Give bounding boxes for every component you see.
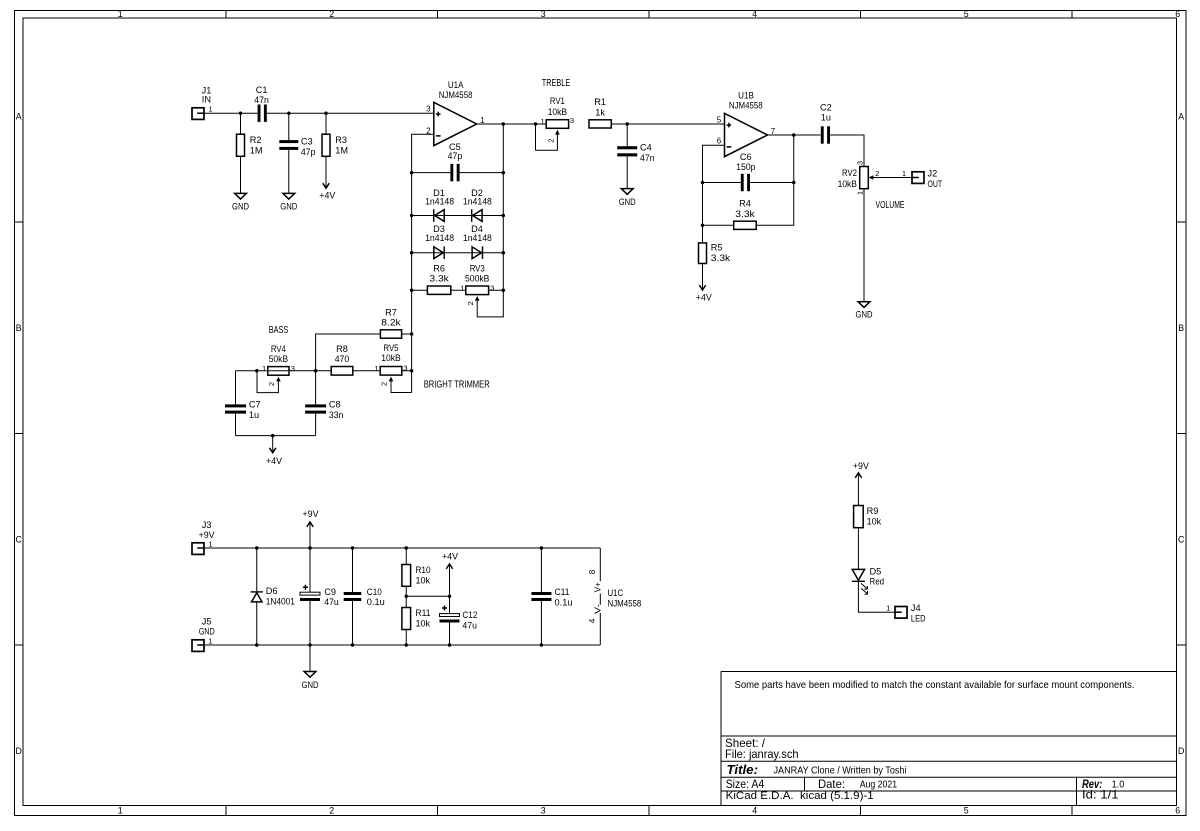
svg-text:2: 2	[546, 138, 555, 142]
resistor R8	[331, 344, 353, 375]
svg-text:C8: C8	[329, 400, 341, 410]
svg-text:4: 4	[752, 806, 757, 816]
svg-text:50kB: 50kB	[269, 354, 288, 364]
potentiometer RV4	[257, 344, 295, 393]
svg-text:C1: C1	[256, 85, 268, 95]
svg-text:R8: R8	[336, 344, 348, 354]
svg-text:1M: 1M	[335, 145, 348, 155]
junction R10 R11	[405, 595, 409, 599]
wire U1A pin2 feedback rail left	[412, 134, 434, 392]
svg-text:R2: R2	[250, 135, 262, 145]
svg-text:RV4: RV4	[271, 344, 286, 354]
svg-text:D: D	[1178, 746, 1184, 756]
svg-text:R10: R10	[416, 565, 431, 575]
svg-text:D: D	[16, 746, 22, 756]
svg-text:1: 1	[886, 604, 890, 613]
svg-text:1n4148: 1n4148	[463, 197, 492, 207]
svg-text:A: A	[1178, 111, 1184, 121]
resistor R6	[427, 263, 450, 294]
svg-text:C9: C9	[324, 587, 336, 597]
svg-text:6: 6	[717, 137, 722, 146]
svg-text:Size: A4: Size: A4	[726, 777, 765, 791]
svg-text:1: 1	[262, 364, 266, 373]
wire U1B right rail to R4	[756, 135, 793, 225]
power +4V above C12	[442, 552, 459, 597]
svg-text:+4V: +4V	[319, 190, 336, 200]
svg-text:RV3: RV3	[470, 263, 485, 273]
svg-text:B: B	[1178, 323, 1184, 333]
junction U1A output	[502, 122, 506, 126]
ground below C4	[619, 189, 636, 207]
svg-text:3.3k: 3.3k	[735, 209, 755, 219]
svg-text:GND: GND	[856, 310, 873, 320]
wire C5 row	[412, 172, 504, 174]
potentiometer RV1	[536, 96, 575, 150]
resistor R3	[322, 113, 348, 188]
svg-text:47n: 47n	[640, 153, 655, 163]
svg-text:3: 3	[490, 283, 494, 292]
LED D5	[852, 566, 884, 594]
wire U1A output row	[477, 123, 547, 125]
svg-text:+4V: +4V	[442, 552, 459, 562]
power +4V below R3	[319, 183, 336, 200]
svg-text:10k: 10k	[416, 618, 431, 628]
svg-text:IN: IN	[202, 95, 211, 105]
resistor R9	[854, 506, 882, 528]
svg-text:1: 1	[208, 105, 212, 114]
capacitor C8	[305, 371, 343, 436]
svg-text:1: 1	[540, 117, 544, 126]
wire C1 to U1A pin3	[267, 112, 434, 114]
svg-text:GND: GND	[199, 627, 215, 637]
connector J5	[192, 617, 215, 652]
svg-text:4: 4	[752, 9, 757, 19]
svg-text:U1A: U1A	[448, 80, 464, 90]
svg-text:10kB: 10kB	[838, 179, 857, 189]
connector J1	[192, 86, 213, 120]
svg-text:U1B: U1B	[738, 91, 754, 101]
svg-text:GND: GND	[619, 197, 636, 207]
junction C6 rows	[701, 181, 705, 185]
svg-text:LED: LED	[911, 613, 926, 623]
connector J3	[192, 520, 215, 555]
svg-text:Title:: Title:	[727, 762, 759, 777]
wire RV2 bottom to GND	[863, 189, 865, 302]
svg-text:47p: 47p	[301, 147, 316, 157]
svg-text:1u: 1u	[821, 113, 831, 123]
connector J2	[902, 168, 942, 188]
op-amp U1B	[717, 91, 776, 157]
wire R4 row	[703, 224, 734, 226]
svg-text:U1C: U1C	[608, 588, 624, 598]
svg-text:R3: R3	[335, 135, 347, 145]
svg-text:C12: C12	[462, 610, 477, 620]
svg-text:1: 1	[374, 364, 378, 373]
svg-text:5: 5	[964, 9, 969, 19]
svg-text:R11: R11	[416, 608, 431, 618]
svg-text:C: C	[1178, 534, 1185, 544]
resistor R4	[734, 199, 757, 230]
svg-text:BASS: BASS	[269, 325, 289, 336]
svg-text:6: 6	[1175, 806, 1180, 816]
diode D4	[463, 224, 492, 259]
svg-text:NJM4558: NJM4558	[439, 90, 473, 100]
svg-text:J3: J3	[202, 520, 212, 530]
svg-text:47p: 47p	[448, 151, 463, 161]
wire C2 to RV2	[830, 135, 864, 166]
power +4V below R5	[696, 264, 713, 303]
svg-text:10kB: 10kB	[381, 353, 400, 363]
capacitor C10	[344, 548, 385, 645]
svg-text:OUT: OUT	[928, 179, 943, 189]
svg-text:47u: 47u	[462, 621, 477, 631]
resistor R10	[402, 548, 431, 608]
wire D5 to J4	[858, 581, 895, 612]
svg-text:VOLUME: VOLUME	[876, 200, 905, 211]
svg-text:3: 3	[403, 364, 407, 373]
svg-text:1: 1	[208, 539, 212, 548]
svg-text:C11: C11	[555, 587, 570, 597]
junction bottom rail	[255, 643, 259, 647]
connector J4	[886, 603, 926, 623]
svg-text:3: 3	[856, 161, 865, 165]
resistor R5	[699, 243, 731, 264]
potentiometer RV3	[460, 263, 494, 305]
wire R1 to U1B pin5	[611, 123, 724, 125]
diode D6	[251, 548, 295, 645]
svg-text:1n4148: 1n4148	[463, 233, 492, 243]
svg-text:RV2: RV2	[842, 168, 857, 178]
svg-text:NJM4558: NJM4558	[729, 101, 763, 111]
wire power top rail	[204, 547, 600, 549]
svg-text:TREBLE: TREBLE	[542, 78, 571, 89]
svg-text:R4: R4	[739, 199, 751, 209]
resistor R11	[402, 608, 431, 646]
svg-text:4: 4	[588, 618, 597, 623]
svg-text:V+: V+	[594, 582, 603, 592]
svg-text:+9V: +9V	[303, 509, 320, 519]
capacitor C4	[617, 124, 654, 189]
diode D2	[463, 188, 492, 222]
wire power bottom rail	[204, 644, 600, 646]
svg-text:C4: C4	[640, 143, 652, 153]
svg-text:3: 3	[291, 364, 295, 373]
svg-text:1: 1	[118, 9, 123, 19]
svg-text:1: 1	[856, 191, 865, 195]
svg-text:RV1: RV1	[550, 96, 565, 106]
junction R2	[239, 111, 243, 115]
svg-text:R6: R6	[433, 263, 445, 273]
wire feedback rail right	[477, 124, 503, 317]
svg-text:1n4148: 1n4148	[425, 233, 454, 243]
junction RV4 pin1	[255, 369, 259, 373]
ground below C9	[302, 645, 319, 690]
svg-text:2: 2	[380, 382, 389, 386]
svg-text:3: 3	[426, 105, 431, 114]
junction top rail	[255, 546, 259, 550]
svg-text:1M: 1M	[250, 145, 263, 155]
svg-text:D5: D5	[870, 566, 882, 576]
svg-text:J5: J5	[202, 617, 212, 627]
capacitor C1	[254, 85, 269, 122]
junction C3	[287, 111, 291, 115]
power +4V bass	[266, 436, 283, 466]
svg-text:3: 3	[541, 806, 546, 816]
svg-text:C2: C2	[820, 103, 832, 113]
svg-text:+4V: +4V	[696, 293, 713, 303]
svg-text:1u: 1u	[249, 410, 259, 420]
svg-text:10k: 10k	[416, 575, 431, 585]
op-amp U1A	[426, 80, 485, 146]
svg-text:BRIGHT TRIMMER: BRIGHT TRIMMER	[424, 379, 490, 390]
svg-text:Aug 2021: Aug 2021	[860, 779, 897, 790]
power +9V above C9	[303, 509, 320, 548]
svg-text:500kB: 500kB	[465, 274, 489, 284]
svg-text:1: 1	[208, 636, 212, 645]
junction C8 node	[314, 369, 318, 373]
svg-text:1N4001: 1N4001	[266, 597, 295, 607]
svg-text:2: 2	[875, 169, 879, 178]
ground below RV2	[856, 302, 873, 320]
svg-text:1k: 1k	[595, 107, 605, 117]
diode D3	[425, 224, 454, 259]
ground below R2	[232, 193, 249, 211]
svg-text:C3: C3	[301, 137, 313, 147]
svg-text:+4V: +4V	[266, 456, 283, 466]
svg-text:C: C	[16, 534, 23, 544]
wire D1 D2 row	[412, 215, 504, 217]
junction RV1 pin1	[534, 122, 538, 126]
svg-text:5: 5	[964, 806, 969, 816]
resistor R2	[237, 113, 263, 193]
wire RV5 R8 RV4 row	[236, 370, 412, 372]
svg-text:47n: 47n	[254, 95, 269, 105]
potentiometer RV2	[838, 161, 880, 195]
svg-text:+9V: +9V	[853, 461, 870, 471]
svg-text:R7: R7	[385, 307, 397, 317]
svg-text:A: A	[16, 111, 22, 121]
svg-text:J4: J4	[911, 603, 921, 613]
svg-text:C10: C10	[367, 587, 382, 597]
wire +4V row	[406, 595, 449, 597]
wire bass bottom	[236, 435, 316, 437]
junction right rail rows	[502, 171, 506, 175]
svg-text:47u: 47u	[324, 597, 339, 607]
resistor R7	[316, 307, 412, 371]
svg-text:B: B	[16, 323, 22, 333]
title block frame	[721, 672, 1177, 806]
svg-text:3: 3	[541, 9, 546, 19]
svg-text:3.3k: 3.3k	[429, 274, 449, 284]
capacitor C7	[225, 371, 261, 436]
svg-text:2: 2	[267, 382, 276, 386]
junction C12 top	[448, 595, 452, 599]
svg-text:0.1u: 0.1u	[367, 597, 385, 607]
wire U1B pin6 rail	[703, 145, 725, 243]
junction U1B output	[792, 133, 796, 137]
svg-text:GND: GND	[302, 680, 319, 690]
svg-text:1n4148: 1n4148	[425, 197, 454, 207]
svg-text:File: janray.sch: File: janray.sch	[725, 747, 799, 761]
svg-text:GND: GND	[232, 202, 249, 212]
junction bass +4V	[271, 434, 275, 438]
resistor R1	[589, 97, 611, 128]
power +9V LED	[853, 461, 870, 506]
svg-text:6: 6	[1175, 9, 1180, 19]
ground below C3	[280, 193, 297, 211]
capacitor C12 polarized	[440, 596, 478, 645]
capacitor C3	[279, 113, 315, 193]
svg-text:KiCad E.D.A. kicad (5.1.9)-1: KiCad E.D.A. kicad (5.1.9)-1	[726, 790, 874, 802]
svg-text:2: 2	[329, 806, 334, 816]
svg-text:470: 470	[335, 354, 350, 364]
svg-text:1: 1	[118, 806, 123, 816]
svg-text:2: 2	[329, 9, 334, 19]
svg-text:V-: V-	[594, 604, 603, 614]
capacitor C11	[531, 548, 572, 645]
wire J1 to C1	[204, 112, 258, 114]
wire RV2 wiper to J2	[873, 177, 912, 179]
junction left rail rows	[410, 171, 414, 175]
svg-text:33n: 33n	[329, 410, 344, 420]
svg-text:Id: 1/1: Id: 1/1	[1082, 788, 1119, 802]
svg-text:8.2k: 8.2k	[381, 318, 401, 328]
junction C4	[625, 122, 629, 126]
svg-text:0.1u: 0.1u	[555, 598, 573, 608]
svg-text:GND: GND	[280, 202, 297, 212]
potentiometer RV5	[374, 343, 411, 393]
svg-text:C6: C6	[740, 152, 752, 162]
svg-text:J2: J2	[928, 168, 938, 178]
wire D3 D4 row	[412, 252, 504, 254]
svg-text:2: 2	[466, 301, 475, 305]
svg-text:RV5: RV5	[384, 343, 399, 353]
svg-text:R1: R1	[594, 97, 606, 107]
capacitor C2	[820, 103, 832, 144]
svg-text:JANRAY Clone / Written by Tosh: JANRAY Clone / Written by Toshi	[774, 766, 907, 777]
svg-text:R5: R5	[711, 243, 723, 253]
svg-text:R9: R9	[867, 506, 879, 516]
svg-text:C7: C7	[249, 400, 261, 410]
op-amp U1C power pins	[588, 548, 641, 645]
wire R9 to D5	[857, 528, 859, 570]
svg-text:1: 1	[460, 284, 464, 293]
capacitor C9 polarized	[300, 548, 339, 645]
svg-text:1: 1	[902, 169, 906, 178]
capacitor C6	[736, 152, 755, 191]
svg-text:8: 8	[588, 569, 597, 574]
svg-text:D6: D6	[266, 586, 278, 596]
svg-text:150p: 150p	[736, 162, 755, 172]
svg-text:+9V: +9V	[199, 530, 216, 540]
svg-text:Red: Red	[870, 577, 885, 587]
diode D1	[425, 188, 454, 222]
svg-text:10k: 10k	[867, 516, 882, 526]
svg-text:3.3k: 3.3k	[711, 253, 731, 263]
wire C6 row	[703, 182, 794, 184]
svg-text:NJM4558: NJM4558	[608, 598, 642, 608]
svg-text:10kB: 10kB	[548, 107, 567, 117]
svg-text:5: 5	[717, 116, 722, 125]
junction R3	[324, 111, 328, 115]
wire R6 RV3 row	[412, 289, 504, 291]
svg-text:Some parts have been modified: Some parts have been modified to match t…	[735, 680, 1135, 691]
svg-text:Date:: Date:	[818, 777, 845, 791]
wire U1B output	[767, 134, 820, 136]
svg-text:3: 3	[570, 116, 574, 125]
capacitor C5	[448, 142, 463, 181]
